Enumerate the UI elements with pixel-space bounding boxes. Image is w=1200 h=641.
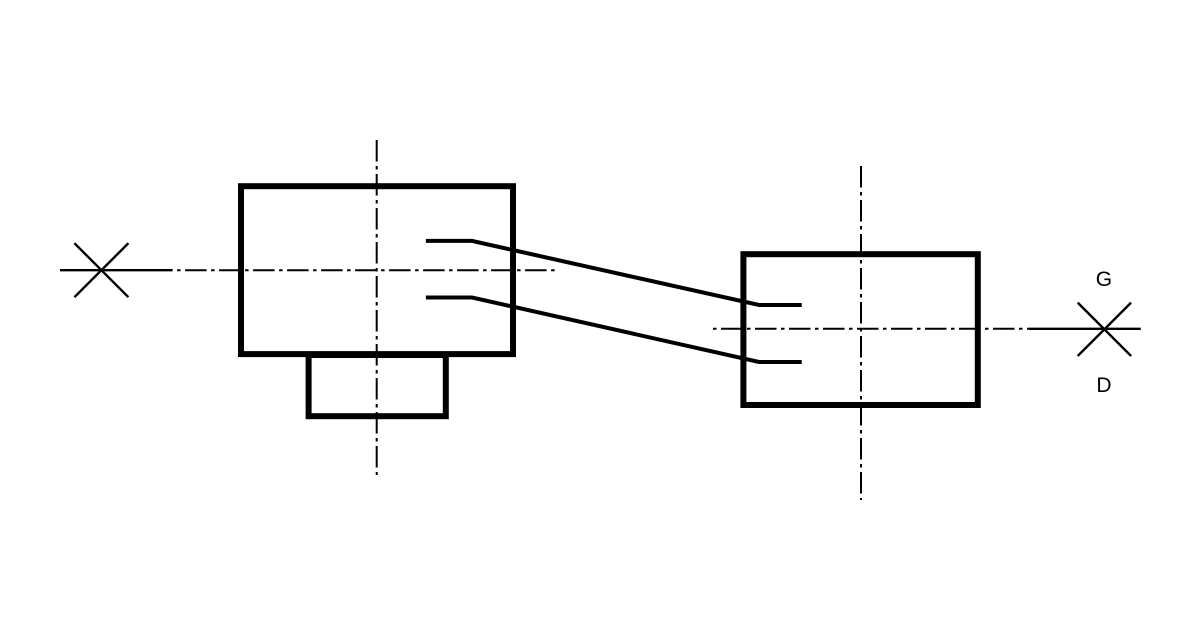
svg-text:D: D [1096, 374, 1111, 397]
svg-text:G: G [1096, 268, 1112, 291]
